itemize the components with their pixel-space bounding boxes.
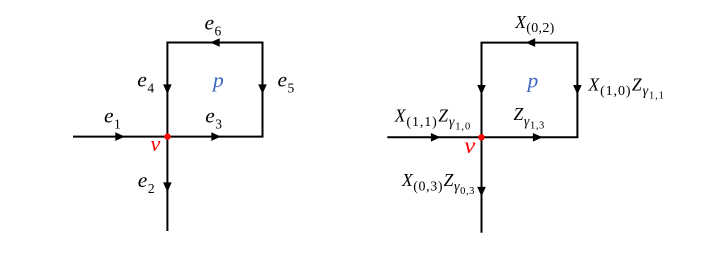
svg-text:e3: e3: [205, 103, 222, 131]
svg-text:X(0,2): X(0,2): [514, 12, 554, 36]
svg-text:v: v: [151, 131, 161, 156]
svg-text:e1: e1: [104, 104, 121, 132]
svg-text:X(1,1)Zγ1,0: X(1,1)Zγ1,0: [394, 106, 471, 133]
svg-text:p: p: [211, 68, 224, 92]
svg-text:p: p: [526, 68, 539, 92]
svg-text:e6: e6: [205, 10, 222, 38]
svg-text:e5: e5: [278, 67, 295, 95]
svg-text:e2: e2: [138, 168, 155, 196]
svg-text:X(1,0)Zγ1,1: X(1,0)Zγ1,1: [588, 75, 665, 102]
svg-text:Zγ1,3: Zγ1,3: [514, 104, 545, 132]
svg-text:X(0,3)Zγ0,3: X(0,3)Zγ0,3: [401, 170, 475, 197]
svg-text:e4: e4: [137, 67, 154, 95]
svg-text:v: v: [464, 133, 476, 158]
